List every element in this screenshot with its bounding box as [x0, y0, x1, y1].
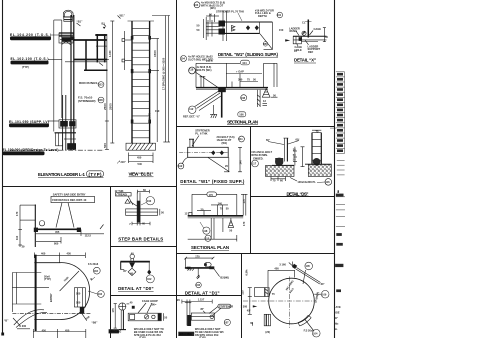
bottom dims left block — [271, 178, 286, 180]
diamond double leader — [297, 268, 321, 283]
svg-text:105: 105 — [306, 264, 311, 268]
svg-text:CL: CL — [302, 20, 306, 24]
svg-text:(20): (20) — [265, 330, 270, 334]
divider h y253.8 — [177, 253, 335, 255]
svg-text:3 300: 3 300 — [241, 304, 248, 308]
title C — [218, 52, 279, 57]
svg-text:100: 100 — [76, 301, 81, 305]
bar rect — [128, 313, 161, 321]
divider mid vertical x176 — [176, 0, 178, 338]
PANEL K: detail at D0 — [118, 252, 154, 292]
ladder stringer dark pair — [62, 95, 64, 150]
PANEL I: cage plan bottom left — [4, 192, 104, 338]
column box plan — [264, 62, 277, 64]
top bar — [128, 20, 155, 22]
title J — [118, 237, 163, 242]
leader to PL note — [290, 178, 297, 182]
dim column mid — [294, 147, 296, 166]
PANEL A: elevation ladder L-1 — [3, 10, 112, 177]
svg-text:EL.101.050 (SUPP. LV): EL.101.050 (SUPP. LV) — [9, 120, 49, 124]
svg-text:106: 106 — [196, 283, 201, 287]
svg-text:103: 103 — [194, 3, 199, 7]
column W-shape elevation — [53, 20, 55, 132]
ground line — [10, 149, 104, 151]
bottom dim — [33, 331, 86, 333]
leaders — [51, 34, 71, 36]
svg-text:112.5: 112.5 — [85, 233, 92, 237]
left upper box — [255, 288, 270, 297]
svg-text:F.S 20x6: F.S 20x6 — [304, 329, 315, 333]
svg-text:FOR DETAILS REF. DWT. 40: FOR DETAILS REF. DWT. 40 — [52, 198, 87, 202]
rod rungs note + callout 103 — [79, 81, 104, 87]
svg-text:140: 140 — [239, 160, 243, 165]
400 dim — [268, 269, 295, 271]
inner right rect — [74, 288, 85, 307]
svg-text:104: 104 — [242, 61, 247, 65]
svg-text:ELEVATION LADDER L-1: ELEVATION LADDER L-1 — [38, 172, 86, 177]
svg-text:117: 117 — [252, 162, 257, 166]
svg-text:REF. DET. “X”: REF. DET. “X” — [183, 114, 201, 118]
svg-text:“B6”: “B6” — [92, 320, 99, 324]
border right — [334, 0, 336, 338]
svg-text:“B1”: “B1” — [119, 14, 126, 18]
left lower box — [264, 314, 270, 326]
title N — [185, 290, 220, 295]
svg-text:6.5%: 6.5% — [245, 269, 249, 276]
svg-text:400: 400 — [41, 252, 46, 256]
arrow — [285, 39, 290, 41]
leaders — [296, 31, 299, 36]
svg-text:EL.104.200 (T.O.S.): EL.104.200 (T.O.S.) — [10, 33, 51, 37]
left rect — [293, 36, 301, 44]
svg-text:101: 101 — [277, 13, 282, 17]
svg-text:DEPTH: DEPTH — [258, 14, 267, 18]
mid bracket support — [59, 120, 76, 128]
PANEL F: detail W1 fixed — [178, 129, 245, 185]
leader 104 — [305, 320, 314, 331]
svg-text:B2(N6): B2(N6) — [220, 275, 228, 279]
svg-text:(W1): (W1) — [210, 6, 216, 10]
svg-text:170: 170 — [15, 211, 19, 216]
svg-text:170: 170 — [209, 193, 214, 197]
svg-text:EL.102.100 (T.O.S.): EL.102.100 (T.O.S.) — [11, 57, 49, 61]
pill stiffener — [218, 304, 231, 308]
left support bracket line — [124, 31, 126, 70]
svg-text:400: 400 — [274, 267, 279, 271]
svg-text:108: 108 — [98, 98, 103, 102]
hatch post below — [256, 90, 258, 107]
left vertical — [185, 258, 187, 268]
gusset — [208, 158, 229, 172]
left dims — [249, 288, 251, 315]
svg-text:2500: 2500 — [109, 103, 113, 110]
leader from callout — [183, 158, 188, 164]
B1 markers — [77, 23, 81, 26]
svg-text:450: 450 — [137, 156, 142, 160]
svg-text:F.S 20x6: F.S 20x6 — [88, 262, 99, 266]
leader diag to 105 — [303, 270, 306, 284]
PANEL M: sectional plan bottom — [185, 192, 248, 251]
svg-text:DETAIL AT “D1”: DETAIL AT “D1” — [185, 290, 220, 295]
leaders from CAGE HOOP — [138, 303, 146, 313]
svg-text:PL. 6 THK: PL. 6 THK — [195, 132, 207, 136]
gusset — [260, 34, 272, 49]
left hook — [120, 262, 122, 270]
svg-text:170: 170 — [195, 255, 200, 259]
dim right — [242, 194, 244, 215]
svg-text:MIN. 75: MIN. 75 — [148, 112, 152, 122]
svg-text:60°: 60° — [296, 138, 300, 142]
ladder rails — [131, 21, 133, 143]
CL tick — [307, 20, 309, 38]
svg-text:102: 102 — [147, 199, 152, 203]
splice plates dark — [131, 36, 134, 40]
left anchor cluster — [275, 158, 283, 166]
svg-text:DOE: DOE — [334, 311, 340, 315]
dim right — [239, 147, 241, 172]
svg-text:35°: 35° — [200, 307, 204, 311]
stiffener note leader — [192, 136, 199, 147]
tread rect — [126, 209, 158, 215]
PANEL L: cage hoop — [109, 299, 168, 338]
big cage ring — [269, 278, 315, 324]
svg-text:103: 103 — [94, 269, 99, 273]
svg-text:118: 118 — [203, 229, 208, 233]
title M — [191, 245, 229, 250]
title A — [38, 171, 104, 178]
divider x241.8 lower — [241, 254, 243, 338]
svg-text:12 THK: 12 THK — [115, 189, 124, 193]
label block 2 — [11, 57, 49, 69]
dims below base — [128, 153, 130, 164]
wall/beam main line — [196, 87, 268, 89]
stringer note + callout — [78, 96, 104, 103]
note box — [51, 196, 95, 202]
svg-text:17 SPACING @ 300 = 5100: 17 SPACING @ 300 = 5100 — [161, 57, 165, 90]
svg-text:STEP BAR DETAILS: STEP BAR DETAILS — [118, 237, 163, 242]
PANEL E: sectional plan top — [183, 59, 278, 125]
PANEL N: detail at D1 — [184, 255, 228, 296]
left wall lines — [12, 272, 41, 274]
svg-text:112: 112 — [178, 164, 183, 168]
PANEL J: step bar details — [115, 188, 165, 242]
title K — [118, 286, 154, 291]
svg-text:170: 170 — [111, 308, 115, 313]
svg-text:111: 111 — [239, 137, 244, 141]
left dim — [19, 205, 21, 247]
callout 103 top — [194, 2, 200, 8]
verticals below — [210, 218, 212, 239]
horizontal bar — [120, 261, 149, 263]
hatch ticks below left — [188, 269, 190, 271]
svg-text:450: 450 — [42, 328, 47, 332]
title E — [227, 119, 258, 124]
pill 170 — [207, 192, 217, 197]
svg-text:B1: B1 — [102, 22, 106, 26]
svg-text:170: 170 — [242, 221, 246, 226]
svg-text:103: 103 — [98, 292, 103, 296]
dim under bar — [36, 233, 81, 235]
divider h y126.5 — [177, 126, 335, 128]
svg-text:140: 140 — [218, 201, 223, 205]
3 160 tick — [289, 263, 293, 266]
svg-text:(TYP): (TYP) — [44, 277, 51, 281]
svg-text:SECTIONAL PLAN: SECTIONAL PLAN — [227, 119, 258, 124]
weld marks — [232, 25, 235, 28]
divider h y186.7 — [3, 186, 177, 188]
svg-text:60°: 60° — [266, 138, 270, 142]
svg-text:1500: 1500 — [153, 50, 157, 57]
60 dim — [138, 191, 150, 193]
svg-text:SAFETY BAR SIDE ENTRY: SAFETY BAR SIDE ENTRY — [53, 192, 86, 196]
rung circle — [302, 31, 306, 35]
svg-text:150: 150 — [155, 109, 160, 113]
leaders from note box — [56, 203, 62, 228]
leader fan to callouts — [195, 72, 220, 89]
svg-text:113: 113 — [205, 236, 210, 240]
top cap bubble — [63, 10, 73, 17]
svg-text:(STRINGER): (STRINGER) — [78, 99, 96, 103]
top connection box — [59, 33, 73, 43]
left concrete block — [266, 166, 295, 177]
svg-text:BRACING: BRACING — [109, 330, 121, 334]
svg-text:M5: M5 — [263, 42, 267, 46]
60 dim lower left — [252, 323, 254, 326]
dims above — [209, 14, 211, 22]
title D — [294, 58, 316, 63]
title B — [129, 171, 154, 177]
svg-text:im.: im. — [334, 327, 338, 331]
post bars — [120, 310, 122, 330]
leader right — [214, 269, 220, 277]
PANEL D: detail X — [279, 20, 328, 64]
dim 170 top — [186, 257, 213, 259]
divider x110 lower — [110, 187, 112, 338]
svg-text:SITE HOLE PLUG 35d: SITE HOLE PLUG 35d — [134, 333, 161, 337]
svg-text:1.157: 1.157 — [198, 298, 205, 302]
svg-text:+ GAP: + GAP — [236, 69, 244, 73]
svg-text:118: 118 — [189, 67, 194, 71]
bottom dim — [132, 223, 150, 225]
svg-text:157.5: 157.5 — [206, 59, 213, 63]
svg-text:1.150: 1.150 — [108, 50, 112, 57]
left dim — [111, 21, 113, 143]
right dim — [159, 209, 161, 215]
svg-text:EMBED.: EMBED. — [253, 156, 263, 160]
divider h y196.5 — [251, 196, 335, 198]
oval eye — [204, 262, 211, 267]
break squiggles — [14, 310, 44, 325]
B1 marker top — [118, 16, 121, 19]
svg-text:ROD RUNGS: ROD RUNGS — [79, 81, 97, 85]
svg-text:ddz: ddz — [334, 322, 339, 326]
right framing — [85, 40, 87, 71]
PANEL O: lower detail under D1 — [177, 298, 233, 338]
callout 118 — [189, 67, 196, 74]
PANEL G: detail DS — [251, 129, 331, 196]
border left — [2, 0, 4, 333]
svg-text:104: 104 — [181, 57, 186, 61]
svg-text:450: 450 — [67, 252, 72, 256]
curved band bottom right — [298, 315, 308, 322]
top dim — [34, 254, 85, 256]
svg-text:RUNG: RUNG — [290, 29, 298, 33]
centerlines — [243, 300, 315, 302]
svg-text:LAYE: LAYE — [334, 305, 341, 309]
svg-text:STIFFENER: STIFFENER — [219, 304, 234, 308]
svg-text:450: 450 — [65, 328, 70, 332]
svg-text:112: 112 — [189, 107, 194, 111]
svg-text:45°: 45° — [247, 308, 251, 312]
hoop circle with cross — [119, 303, 126, 310]
hatched base — [126, 143, 156, 150]
svg-text:DETAIL “W1” (SLIDING SUPP.): DETAIL “W1” (SLIDING SUPP.) — [218, 52, 279, 57]
svg-text:BOLTS (W1): BOLTS (W1) — [197, 68, 212, 72]
svg-text:(TYP): (TYP) — [89, 172, 103, 177]
post — [186, 302, 188, 325]
svg-text:DETAIL “X”: DETAIL “X” — [294, 58, 316, 63]
dim vertical right — [106, 34, 108, 150]
ruled lines below — [337, 159, 345, 161]
label block 4 — [3, 148, 59, 155]
diamonds — [246, 25, 250, 30]
right hanger — [148, 263, 150, 271]
svg-text:190=: 190= — [151, 303, 157, 307]
svg-text:500: 500 — [103, 143, 107, 148]
centerline — [12, 312, 91, 314]
svg-text:125: 125 — [241, 290, 245, 295]
post above beam — [189, 139, 191, 147]
divider x250 — [250, 127, 252, 254]
lines mid — [336, 196, 345, 198]
left dim vertical — [114, 304, 116, 329]
beam — [188, 215, 244, 217]
ladder stringer plan — [221, 88, 223, 118]
svg-text:2500: 2500 — [103, 103, 107, 110]
title F — [180, 179, 245, 184]
weld triangle — [125, 199, 130, 203]
center vertical — [197, 268, 199, 277]
svg-text:BRACING: BRACING — [179, 332, 192, 336]
svg-text:116: 116 — [325, 180, 330, 184]
svg-text:ENTRY: ENTRY — [49, 293, 53, 302]
weld triangle hatched — [262, 89, 270, 98]
ladder thick line — [35, 255, 37, 331]
platform beam 2 — [74, 59, 107, 61]
svg-text:REF: REF — [308, 50, 314, 54]
svg-text:108: 108 — [241, 96, 246, 100]
right unit rails — [311, 133, 313, 165]
75 dim — [312, 129, 321, 131]
svg-text:CAGE HOOP: CAGE HOOP — [142, 299, 158, 303]
svg-text:EL.100.000 (GRD/Design To Leve: EL.100.000 (GRD/Design To Level) — [3, 148, 59, 152]
ladder rail thick — [70, 15, 72, 150]
svg-text:VIEW “B1 B1”: VIEW “B1 B1” — [129, 171, 154, 176]
svg-text:150: 150 — [279, 28, 284, 32]
step bar side elev — [34, 205, 36, 248]
beam plan — [293, 35, 327, 37]
beam rect — [188, 147, 229, 157]
svg-text:170: 170 — [242, 199, 246, 204]
leaders from pill — [209, 307, 218, 314]
dark flange blobs — [219, 21, 226, 27]
svg-text:300: 300 — [238, 77, 243, 81]
svg-text:110: 110 — [15, 235, 19, 240]
vertical column line — [222, 11, 224, 42]
dim 50 right — [271, 96, 278, 98]
40 dim — [127, 303, 130, 305]
svg-text:103: 103 — [98, 83, 103, 87]
radius leader — [60, 271, 79, 291]
label block 1 — [10, 33, 51, 40]
ground symbol — [210, 113, 217, 115]
svg-text:40°: 40° — [334, 316, 338, 320]
divider h y295.6 — [111, 295, 242, 297]
open diamond — [128, 268, 136, 275]
svg-text:DETAIL “DS”: DETAIL “DS” — [287, 191, 309, 196]
svg-text:109: 109 — [322, 292, 327, 296]
svg-text:106: 106 — [239, 113, 244, 117]
dims top — [196, 62, 240, 64]
left vertical dim pair — [200, 76, 202, 88]
dim top — [182, 301, 212, 303]
leader 109 — [314, 293, 321, 295]
svg-text:100x10x300 PL: 100x10x300 PL — [297, 180, 316, 184]
right dim lines — [156, 39, 158, 143]
svg-text:DETAIL “W1” (FIXED SUPP.): DETAIL “W1” (FIXED SUPP.) — [180, 179, 245, 184]
X brace in connection — [61, 38, 70, 45]
triangle weld — [228, 220, 233, 227]
svg-text:3 160: 3 160 — [279, 263, 286, 267]
top circle — [130, 254, 134, 258]
right concrete block — [308, 164, 331, 176]
leader into table — [330, 127, 336, 129]
leader B6 — [82, 314, 87, 321]
label block 3 — [9, 120, 49, 127]
leader from box — [128, 196, 133, 205]
PANEL Q: right table strip — [330, 72, 345, 331]
svg-text:SECTIONAL PLAN: SECTIONAL PLAN — [191, 245, 229, 250]
cross-section vertical bar — [136, 192, 138, 225]
rungs — [132, 27, 150, 29]
left bracket verticals — [203, 19, 205, 38]
platform beam top — [59, 32, 74, 34]
shim stack horizontals — [206, 22, 220, 24]
divider h y246.5 — [111, 246, 177, 248]
svg-text:“J10”: “J10” — [119, 160, 127, 164]
svg-text:(TREAD): (TREAD) — [117, 192, 128, 196]
svg-text:CAGE: CAGE — [314, 27, 322, 31]
callout 104 + note (below title, left) — [181, 56, 187, 62]
svg-text:540: 540 — [138, 162, 143, 166]
svg-text:DETAIL AT “D0”: DETAIL AT “D0” — [118, 286, 154, 291]
svg-text:107: 107 — [224, 321, 229, 325]
left post (stringer) — [283, 138, 285, 161]
PANEL P: big circle — [241, 262, 330, 338]
small angle mark — [203, 311, 206, 313]
PANEL C: detail W1 sliding — [181, 1, 283, 62]
black blob above — [132, 306, 135, 309]
svg-text:“B1”: “B1” — [77, 20, 84, 24]
bar rect — [191, 313, 214, 320]
svg-text:60°: 60° — [321, 282, 325, 286]
svg-text:STIFFENER PL.70 THK: STIFFENER PL.70 THK — [216, 10, 244, 14]
svg-text:455: 455 — [55, 230, 60, 234]
weld leaders — [268, 142, 284, 145]
centerline — [179, 151, 228, 153]
step bar — [185, 267, 214, 269]
dim frame — [192, 193, 207, 195]
